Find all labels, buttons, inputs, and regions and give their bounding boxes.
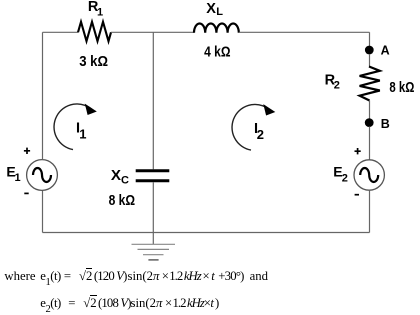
node A <box>365 46 374 55</box>
middle wire bottom (capacitor to ground) <box>152 182 154 244</box>
E2 minus sign <box>355 194 359 196</box>
svg-text:L: L <box>216 6 223 18</box>
svg-text:2: 2 <box>257 127 264 142</box>
svg-text:1: 1 <box>15 172 21 184</box>
svg-text:8 kΩ: 8 kΩ <box>109 193 136 209</box>
svg-text:X: X <box>111 167 121 184</box>
ground line 4 <box>148 259 158 261</box>
bottom wire <box>43 232 370 234</box>
E2 plus sign <box>355 148 361 154</box>
E1 plus sign <box>24 148 30 154</box>
mesh current I1 arrowhead <box>85 104 97 115</box>
wire left side bottom up to E1 <box>42 191 44 233</box>
svg-text:B: B <box>381 117 390 131</box>
node B <box>365 118 374 127</box>
wire XL to top-right corner <box>239 31 370 33</box>
ground line 1 <box>132 243 176 245</box>
svg-text:C: C <box>121 174 129 186</box>
formula line 1 <box>0 268 1 270</box>
wire R2 to node B <box>369 101 371 120</box>
wire E2 to bottom-right corner <box>369 190 371 232</box>
wire right side down to node A <box>369 32 371 46</box>
wire top-left horizontal segment <box>43 31 79 33</box>
svg-text:1: 1 <box>97 6 103 18</box>
E1 minus sign <box>24 192 28 194</box>
mesh current I1 arrow arc <box>54 104 93 150</box>
resistor R2 <box>360 67 380 101</box>
E1 sine wave <box>33 168 51 182</box>
wire node B down to E2 <box>369 127 371 160</box>
middle wire top (node to capacitor) <box>152 32 154 169</box>
source E1 circle <box>27 160 58 191</box>
svg-text:2: 2 <box>342 172 348 184</box>
svg-text:8 kΩ: 8 kΩ <box>389 80 414 96</box>
capacitor XC bottom plate <box>136 179 170 182</box>
inductor XL <box>194 23 239 32</box>
capacitor XC top plate <box>136 169 170 172</box>
wire between R1 and XL <box>111 31 194 33</box>
svg-text:X: X <box>206 1 216 17</box>
wire E1 up to top-left corner <box>42 32 44 159</box>
mesh current I2 arrow arc <box>232 104 271 150</box>
source E2 circle <box>354 160 384 190</box>
svg-text:1: 1 <box>79 127 86 142</box>
svg-text:4 kΩ: 4 kΩ <box>204 45 231 61</box>
ground line 3 <box>143 254 164 256</box>
svg-text:3 kΩ: 3 kΩ <box>79 54 108 70</box>
svg-text:2: 2 <box>334 80 340 92</box>
mesh current I2 arrowhead <box>263 104 275 115</box>
ground line 2 <box>138 248 170 250</box>
wire node A to R2 <box>369 54 371 67</box>
formula line 2 <box>0 295 1 297</box>
resistor R1 <box>78 22 111 41</box>
svg-text:A: A <box>381 43 390 57</box>
E2 sine wave <box>360 168 378 182</box>
